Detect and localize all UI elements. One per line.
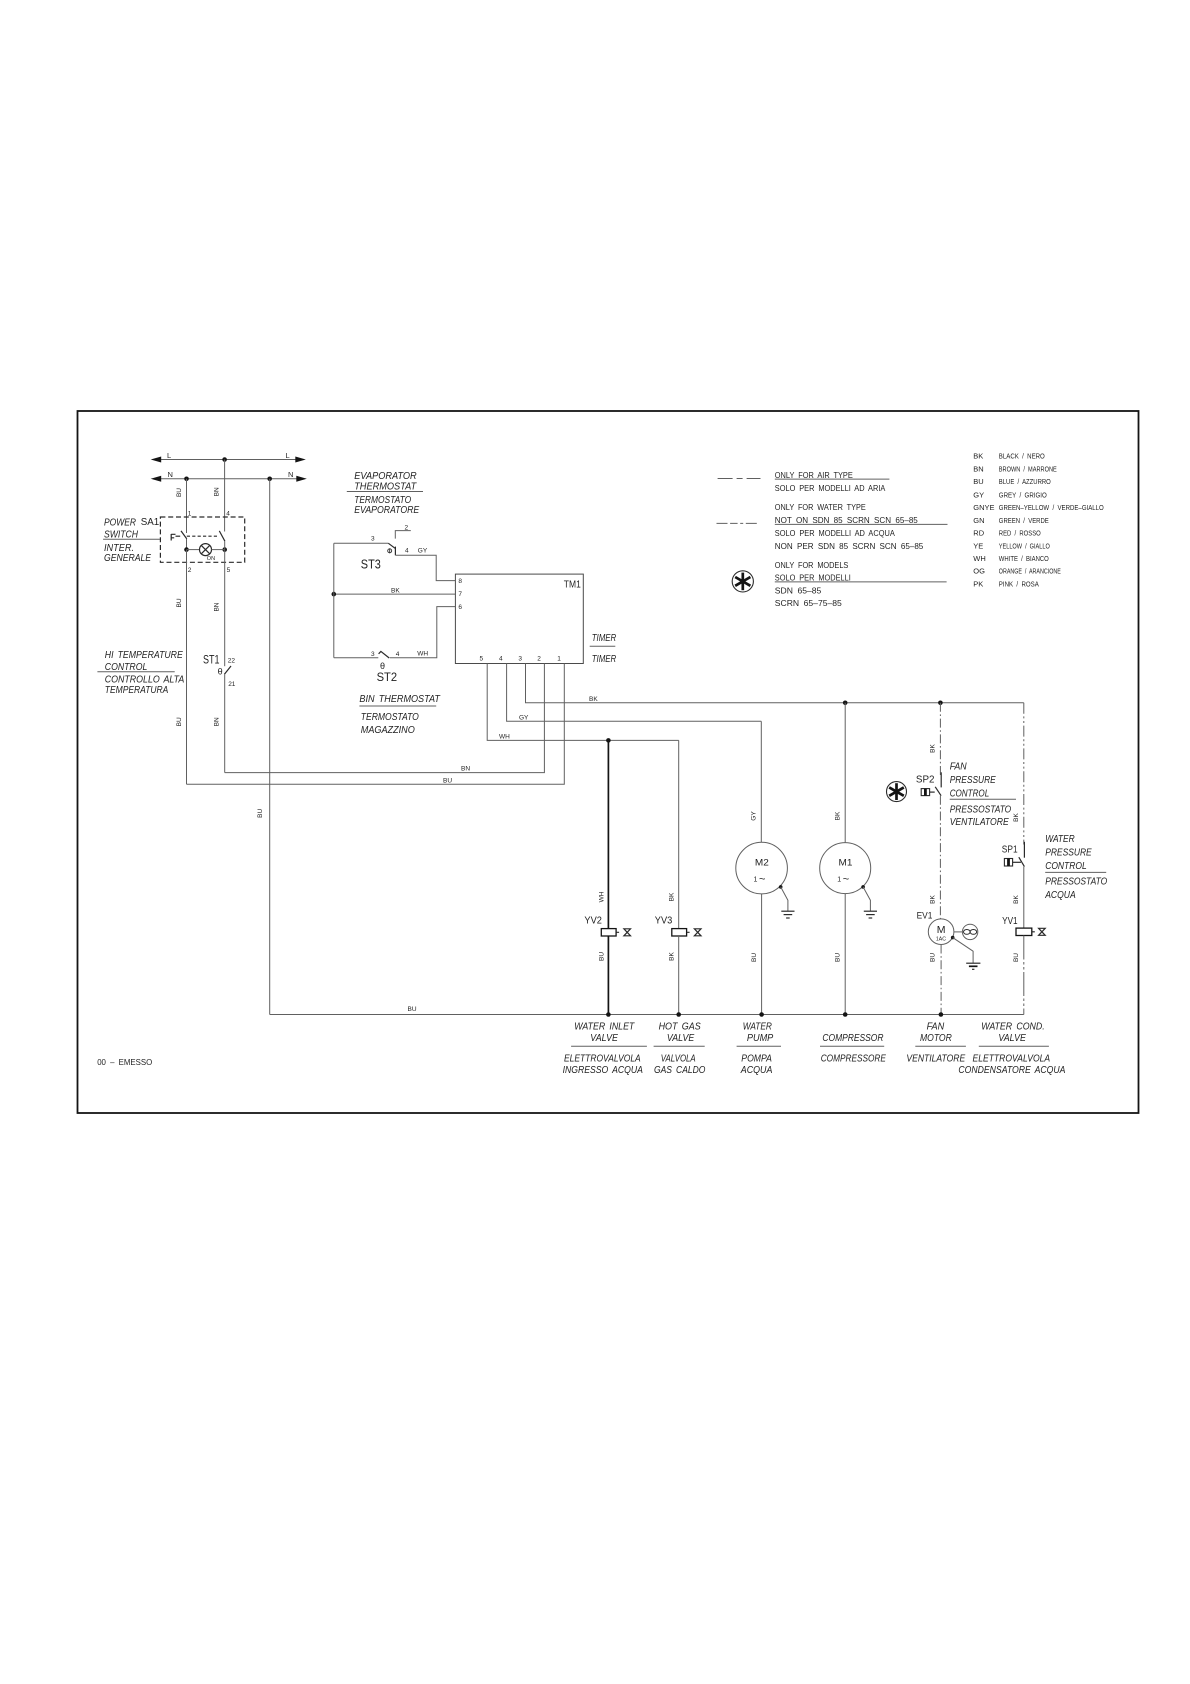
svg-text:YELLOW / GIALLO: YELLOW / GIALLO xyxy=(999,541,1050,550)
svg-text:ONLY FOR WATER TYPE: ONLY FOR WATER TYPE xyxy=(775,503,866,512)
svg-text:BU: BU xyxy=(176,488,183,497)
svg-text:4: 4 xyxy=(396,651,400,658)
svg-text:3: 3 xyxy=(518,655,522,662)
svg-text:WATER INLET: WATER INLET xyxy=(574,1021,635,1032)
junction N to long BU feeder xyxy=(267,477,272,482)
note ONLY FOR WATER TYPE xyxy=(775,503,948,551)
wire BU from N to SA1 pin1 xyxy=(176,479,187,533)
svg-text:7: 7 xyxy=(458,591,462,598)
svg-text:GY: GY xyxy=(973,490,984,499)
wire BU below M2 xyxy=(751,894,762,1015)
svg-text:BLACK / NERO: BLACK / NERO xyxy=(999,452,1045,461)
svg-text:SOLO PER MODELLI AD ACQUA: SOLO PER MODELLI AD ACQUA xyxy=(775,529,896,538)
svg-text:00 – EMESSO: 00 – EMESSO xyxy=(97,1058,152,1067)
svg-text:WH: WH xyxy=(973,554,986,563)
svg-text:BK: BK xyxy=(391,587,400,594)
svg-text:22: 22 xyxy=(228,658,236,665)
label HI TEMPERATURE CONTROL xyxy=(97,649,184,696)
svg-text:TM1: TM1 xyxy=(564,580,581,591)
asterisk symbol near SP2 xyxy=(887,782,907,802)
label WATER INLET VALVE xyxy=(563,1021,647,1076)
svg-text:RD: RD xyxy=(973,529,984,538)
svg-text:WHITE / BIANCO: WHITE / BIANCO xyxy=(999,554,1049,563)
svg-text:VALVE: VALVE xyxy=(590,1033,618,1044)
svg-text:BK: BK xyxy=(1013,813,1020,822)
svg-text:PUMP: PUMP xyxy=(747,1033,774,1044)
wire BU fan branch below EV1 xyxy=(930,945,942,1015)
svg-text:SOLO PER MODELLI AD ARIA: SOLO PER MODELLI AD ARIA xyxy=(775,484,886,493)
svg-text:POWER: POWER xyxy=(104,517,136,529)
svg-text:ONLY FOR AIR TYPE: ONLY FOR AIR TYPE xyxy=(775,471,853,480)
node N (neutral rail) xyxy=(151,470,307,482)
note ONLY FOR AIR TYPE xyxy=(775,471,890,493)
svg-text:ORANGE / ARANCIONE: ORANGE / ARANCIONE xyxy=(999,567,1061,576)
svg-text:RED / ROSSO: RED / ROSSO xyxy=(999,529,1041,538)
wire GY from ST3 pin4 to TM1 pin8 xyxy=(395,555,455,580)
wire BU from SA1 pin2 down xyxy=(176,550,187,785)
junction N to BU drop xyxy=(184,477,189,482)
svg-text:6: 6 xyxy=(458,604,462,611)
node L (line rail) xyxy=(151,451,306,463)
svg-text:GY: GY xyxy=(751,811,758,821)
label HOT GAS VALVE xyxy=(654,1021,706,1076)
svg-text:VENTILATORE: VENTILATORE xyxy=(950,816,1010,828)
svg-text:θ: θ xyxy=(218,667,223,677)
svg-text:BU: BU xyxy=(835,953,842,962)
label POWER SWITCH INTER. GENERALE xyxy=(103,517,160,564)
label COMPRESSOR xyxy=(820,1033,886,1065)
svg-text:BU: BU xyxy=(930,953,937,962)
svg-text:L: L xyxy=(286,451,290,460)
svg-text:BK: BK xyxy=(668,892,675,901)
svg-text:SOLO PER MODELLI: SOLO PER MODELLI xyxy=(775,574,851,583)
svg-text:GREY / GRIGIO: GREY / GRIGIO xyxy=(999,490,1047,499)
svg-text:1: 1 xyxy=(837,877,841,884)
label WATER PUMP xyxy=(737,1021,781,1076)
svg-text:BN: BN xyxy=(214,487,221,496)
wire BU below YV1 xyxy=(1013,936,1024,1015)
svg-text:GY: GY xyxy=(418,548,428,555)
svg-text:ST2: ST2 xyxy=(377,670,398,684)
svg-text:BU: BU xyxy=(443,777,452,784)
ST3 contact blade xyxy=(388,543,395,548)
svg-text:BK: BK xyxy=(1013,895,1020,904)
label FAN PRESSURE CONTROL xyxy=(950,761,1016,829)
svg-text:OG: OG xyxy=(973,567,985,576)
svg-text:GREEN–YELLOW / VERDE–GIALLO: GREEN–YELLOW / VERDE–GIALLO xyxy=(999,503,1104,512)
svg-text:BROWN / MARRONE: BROWN / MARRONE xyxy=(999,464,1057,473)
svg-text:4: 4 xyxy=(226,510,230,517)
wire BU below M1 xyxy=(835,894,846,1015)
bin thermostat ST2 xyxy=(334,650,429,684)
junction on L rail xyxy=(222,457,227,462)
svg-text:5: 5 xyxy=(480,655,484,662)
svg-text:HI TEMPERATURE: HI TEMPERATURE xyxy=(105,649,184,661)
svg-text:EVAPORATORE: EVAPORATORE xyxy=(354,504,420,516)
junction rail YV2 xyxy=(606,1012,611,1017)
wire BN from L to SA1 pin4 xyxy=(214,460,225,532)
wire BN from ST1 down xyxy=(214,674,225,772)
timer TM1 box xyxy=(455,574,583,663)
svg-text:PRESSOSTATO: PRESSOSTATO xyxy=(950,804,1012,816)
label BIN THERMOSTAT xyxy=(359,693,441,736)
svg-text:COMPRESSORE: COMPRESSORE xyxy=(821,1054,886,1065)
wire BN from SA1 pin5 down to ST1 xyxy=(214,541,225,666)
svg-text:1: 1 xyxy=(188,510,192,517)
svg-text:1: 1 xyxy=(754,877,758,884)
svg-text:BK: BK xyxy=(973,452,983,461)
svg-text:4: 4 xyxy=(499,655,503,662)
junction BK to fan branch xyxy=(938,701,943,706)
svg-text:CONTROL: CONTROL xyxy=(1045,860,1087,872)
svg-text:~: ~ xyxy=(759,874,765,886)
svg-text:ON: ON xyxy=(207,556,215,562)
svg-text:SDN 65–85: SDN 65–85 xyxy=(775,586,822,595)
svg-text:HOT GAS: HOT GAS xyxy=(659,1021,701,1032)
svg-text:2: 2 xyxy=(537,655,541,662)
svg-text:M2: M2 xyxy=(755,857,769,867)
svg-text:VALVE: VALVE xyxy=(667,1033,695,1044)
svg-text:BN: BN xyxy=(461,766,470,773)
svg-text:BK: BK xyxy=(930,895,937,904)
wire BK below SP1 xyxy=(1013,867,1024,929)
wire SA1 pin2 internal xyxy=(186,539,188,550)
solenoid valve YV2 branch wire WH xyxy=(598,740,608,928)
motor M1 compressor xyxy=(820,843,871,894)
wire GY from TM1 pin4 to M2 xyxy=(507,664,762,722)
solenoid valve YV3 branch wire BK xyxy=(668,740,678,928)
svg-text:GNYE: GNYE xyxy=(973,503,994,512)
SA1 ON lamp xyxy=(187,544,225,562)
svg-text:3: 3 xyxy=(371,651,375,658)
svg-text:WH: WH xyxy=(598,891,605,902)
wire BK fan branch (air type dash-dot) xyxy=(930,703,941,776)
svg-text:PRESSURE: PRESSURE xyxy=(950,774,997,786)
svg-text:PRESSOSTATO: PRESSOSTATO xyxy=(1045,876,1107,888)
svg-text:INGRESSO ACQUA: INGRESSO ACQUA xyxy=(563,1065,644,1076)
junction rail M2 xyxy=(759,1012,764,1017)
svg-text:GREEN / VERDE: GREEN / VERDE xyxy=(999,516,1049,525)
wire to ST3 pin 3 xyxy=(334,542,389,544)
svg-text:SCRN 65–75–85: SCRN 65–75–85 xyxy=(775,599,843,608)
svg-text:WH: WH xyxy=(499,734,510,741)
solenoid valve YV2 xyxy=(584,916,630,936)
svg-text:ACQUA: ACQUA xyxy=(740,1065,773,1076)
svg-text:NON PER SDN 85 SCRN SCN 65–85: NON PER SDN 85 SCRN SCN 65–85 xyxy=(775,542,924,551)
svg-text:BU: BU xyxy=(257,808,264,817)
junction rail fan branch xyxy=(939,1012,944,1017)
svg-text:BU: BU xyxy=(1013,953,1020,962)
svg-text:1: 1 xyxy=(557,655,561,662)
svg-text:4: 4 xyxy=(405,548,409,555)
asterisk symbol (models note) xyxy=(732,571,753,592)
wire WH from ST2 to TM1 pin6 xyxy=(390,607,456,658)
wire BK below YV3 xyxy=(668,936,678,1015)
svg-text:NOT ON SDN 85 SCRN SCN 65–85: NOT ON SDN 85 SCRN SCN 65–85 xyxy=(775,516,919,525)
label TIMER / TIMER xyxy=(590,632,617,665)
svg-text:ELETTROVALVOLA: ELETTROVALVOLA xyxy=(564,1054,641,1065)
wire BK fan branch below SP2 xyxy=(930,796,941,919)
svg-text:BN: BN xyxy=(973,464,983,473)
wire BU long feeder from N to bottom rail xyxy=(257,479,270,1015)
thermostat ST3 xyxy=(334,524,428,571)
svg-text:GY: GY xyxy=(519,715,529,722)
wire TM1 pin1 to BU return xyxy=(187,664,565,785)
note ONLY FOR MODELS with asterisk xyxy=(775,561,947,608)
junction lamp left xyxy=(184,547,189,552)
svg-text:MOTOR: MOTOR xyxy=(920,1033,952,1044)
SA1 left contact blade xyxy=(176,531,187,539)
note water type line sample xyxy=(717,522,760,524)
svg-text:SA1: SA1 xyxy=(141,517,160,528)
border frame xyxy=(78,411,1139,1113)
junction WH to YV2 xyxy=(606,738,611,743)
pressure switch SP2 xyxy=(916,772,941,795)
svg-text:ELETTROVALVOLA: ELETTROVALVOLA xyxy=(973,1054,1051,1065)
svg-text:TIMER: TIMER xyxy=(592,632,617,644)
svg-text:BK: BK xyxy=(668,952,675,961)
svg-text:3: 3 xyxy=(371,535,375,542)
svg-text:TIMER: TIMER xyxy=(592,653,617,665)
svg-text:TEMPERATURA: TEMPERATURA xyxy=(105,684,169,696)
solenoid valve YV3 xyxy=(655,916,701,936)
svg-text:VENTILATORE: VENTILATORE xyxy=(906,1054,965,1065)
svg-text:PRESSURE: PRESSURE xyxy=(1045,847,1092,859)
junction BK on left vertical xyxy=(332,592,337,597)
svg-text:TERMOSTATO: TERMOSTATO xyxy=(361,711,419,723)
svg-text:M: M xyxy=(937,924,946,936)
solenoid valve YV1 xyxy=(1002,916,1045,936)
thermostat ST1 xyxy=(203,655,236,689)
label WATER COND. VALVE xyxy=(958,1021,1065,1076)
wire BK water branch (water type dash-dot-dot) xyxy=(1013,703,1024,845)
label EVAPORATOR THERMOSTAT xyxy=(347,470,423,516)
svg-text:CONTROL: CONTROL xyxy=(950,787,990,799)
svg-text:COMPRESSOR: COMPRESSOR xyxy=(822,1033,883,1044)
svg-text:GENERALE: GENERALE xyxy=(104,552,152,564)
svg-text:21: 21 xyxy=(228,681,236,688)
SA1 mechanical link (dashed) xyxy=(187,535,219,537)
wire BU bottom rail xyxy=(270,1006,1024,1015)
svg-text:BK: BK xyxy=(589,696,598,703)
svg-text:GAS CALDO: GAS CALDO xyxy=(654,1065,706,1076)
wire BK from TM1 pin3 to right column xyxy=(526,664,1024,703)
svg-text:FAN: FAN xyxy=(927,1021,945,1032)
svg-text:YV2: YV2 xyxy=(584,916,602,927)
svg-text:BN: BN xyxy=(214,717,221,726)
motor M2 water pump xyxy=(736,842,788,894)
svg-text:VALVE: VALVE xyxy=(998,1033,1026,1044)
svg-text:SP2: SP2 xyxy=(916,775,935,786)
svg-text:SP1: SP1 xyxy=(1002,845,1018,856)
junction lamp right xyxy=(222,547,227,552)
svg-text:YV3: YV3 xyxy=(655,916,673,927)
svg-text:2: 2 xyxy=(188,567,192,574)
wire TM1 pin2 to BN xyxy=(225,664,545,773)
svg-text:M1: M1 xyxy=(839,857,853,867)
svg-text:BIN THERMOSTAT: BIN THERMOSTAT xyxy=(359,693,441,705)
svg-text:PK: PK xyxy=(973,579,983,588)
label FAN MOTOR xyxy=(906,1021,966,1064)
ground M1 xyxy=(861,885,877,918)
svg-text:BLUE / AZZURRO: BLUE / AZZURRO xyxy=(999,477,1051,486)
label WATER PRESSURE CONTROL xyxy=(1044,833,1107,901)
svg-text:BN: BN xyxy=(214,602,221,611)
svg-text:CONDENSATORE ACQUA: CONDENSATORE ACQUA xyxy=(958,1065,1065,1076)
wire BK down to M1 xyxy=(834,703,845,843)
fan motor EV1 xyxy=(917,910,978,944)
svg-text:ST1: ST1 xyxy=(203,655,220,667)
svg-text:SWITCH: SWITCH xyxy=(104,528,138,540)
svg-text:WATER COND.: WATER COND. xyxy=(981,1021,1044,1032)
svg-text:PINK / ROSA: PINK / ROSA xyxy=(999,579,1039,588)
ground M2 xyxy=(779,885,795,918)
svg-text:MAGAZZINO: MAGAZZINO xyxy=(361,724,415,736)
ST2 contact blade xyxy=(379,651,390,658)
svg-text:N: N xyxy=(288,470,293,479)
svg-text:GN: GN xyxy=(973,516,984,525)
junction rail M1 xyxy=(843,1012,848,1017)
svg-text:8: 8 xyxy=(458,578,462,585)
svg-text:1AC: 1AC xyxy=(936,937,946,943)
legend wire colour table xyxy=(973,452,1104,589)
pressure switch SP1 xyxy=(1002,842,1025,867)
ST3 pin 2 stub wire xyxy=(395,531,411,539)
svg-text:VALVOLA: VALVOLA xyxy=(661,1054,696,1065)
svg-text:ONLY FOR MODELS: ONLY FOR MODELS xyxy=(775,561,849,570)
svg-text:BU: BU xyxy=(408,1006,417,1013)
svg-text:YV1: YV1 xyxy=(1002,916,1018,927)
junction rail YV3 xyxy=(676,1012,681,1017)
svg-text:BK: BK xyxy=(930,744,937,753)
svg-text:BU: BU xyxy=(176,717,183,726)
svg-text:FAN: FAN xyxy=(950,761,967,773)
svg-text:YE: YE xyxy=(973,541,983,550)
wire to ST2 pin 3 xyxy=(334,657,379,659)
wire BK from node to TM1 pin7 xyxy=(334,587,456,594)
ground EV1 xyxy=(951,936,981,970)
svg-text:BU: BU xyxy=(176,598,183,607)
svg-text:THERMOSTAT: THERMOSTAT xyxy=(354,481,417,493)
svg-text:EV1: EV1 xyxy=(917,910,933,920)
svg-text:BU: BU xyxy=(973,477,983,486)
ST3 thermal symbol xyxy=(388,549,392,553)
svg-text:BU: BU xyxy=(751,953,758,962)
wire BU below YV2 xyxy=(598,936,608,1015)
svg-text:WATER: WATER xyxy=(743,1021,772,1032)
svg-text:ACQUA: ACQUA xyxy=(1044,889,1075,901)
power switch SA1 dashed box xyxy=(160,517,244,562)
svg-text:BU: BU xyxy=(598,952,605,961)
SA1 manual actuator hook xyxy=(171,534,175,541)
svg-text:~: ~ xyxy=(843,874,849,886)
svg-text:POMPA: POMPA xyxy=(741,1054,772,1065)
junction BK to M1 xyxy=(843,701,848,706)
wire GY down to M2 xyxy=(751,721,762,842)
SA1 right contact blade xyxy=(219,531,225,541)
svg-text:N: N xyxy=(168,470,173,479)
svg-text:BK: BK xyxy=(834,811,841,820)
note air type line sample xyxy=(718,478,761,480)
svg-text:5: 5 xyxy=(227,567,231,574)
wire left vertical ST3 to ST2 xyxy=(333,543,335,657)
svg-text:WH: WH xyxy=(417,650,428,657)
svg-text:WATER: WATER xyxy=(1045,833,1075,845)
wire WH from TM1 pin5 to valves xyxy=(487,664,679,741)
svg-text:ST3: ST3 xyxy=(361,557,381,571)
svg-text:L: L xyxy=(167,451,171,460)
